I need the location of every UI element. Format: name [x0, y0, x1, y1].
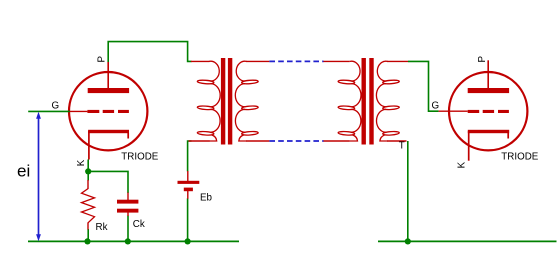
node K junction — [85, 168, 91, 174]
triode U2 cathode lead K — [468, 131, 470, 161]
svg-text:Eb: Eb — [200, 193, 213, 204]
transformer T2 core — [362, 58, 366, 145]
resistor Rk — [82, 189, 95, 223]
triode U1 plate lead — [107, 62, 109, 88]
triode U1 grid dashes — [87, 110, 128, 113]
svg-text:TRIODE: TRIODE — [501, 152, 538, 163]
wire junction to capacitor — [88, 171, 128, 193]
wire secondary to grid right — [408, 61, 439, 111]
triode U1 cathode lead K — [88, 131, 90, 160]
wire battery to rail — [187, 198, 189, 241]
triode U2 plate bar — [468, 88, 509, 93]
transformer T2 secondary winding — [376, 61, 399, 141]
svg-text:P: P — [97, 56, 108, 63]
wire ground rail left — [28, 240, 239, 242]
svg-text:G: G — [52, 100, 60, 111]
triode U2 grid lead — [439, 110, 468, 112]
wire resistor to rail — [87, 229, 89, 241]
triode U2 cathode — [468, 130, 509, 133]
transformer T2 primary winding — [338, 61, 361, 141]
transformer T1 secondary lead bottom — [246, 140, 269, 142]
transformer T1 primary lead top — [191, 60, 210, 62]
node rail T — [405, 238, 411, 244]
triode U1 grid lead — [70, 110, 88, 112]
wire T to rail — [407, 141, 409, 241]
svg-text:P: P — [477, 56, 488, 63]
svg-text:G: G — [432, 100, 440, 111]
wire capacitor to rail — [127, 216, 129, 242]
svg-text:T: T — [399, 141, 405, 152]
triode U2 (right) envelope — [449, 72, 527, 150]
svg-text:Rk: Rk — [96, 222, 108, 233]
svg-text:Ck: Ck — [133, 219, 145, 230]
transformer T2 secondary lead top — [387, 60, 408, 62]
link line top (dashed) — [269, 60, 323, 62]
capacitor Ck leads — [127, 193, 129, 201]
link line bottom (dashed) — [269, 140, 323, 142]
node rail Ck — [125, 238, 131, 244]
svg-text:ei: ei — [17, 162, 30, 181]
battery Eb plates — [178, 181, 200, 184]
node rail Eb — [185, 238, 191, 244]
wire cathode junction vertical — [87, 160, 89, 181]
triode U1 cathode — [88, 130, 129, 133]
svg-text:K: K — [76, 159, 87, 166]
triode U2 plate lead — [487, 60, 489, 88]
resistor Rk leads — [87, 180, 89, 189]
voltage arrow ei — [38, 115, 40, 238]
wire grid left — [28, 110, 70, 112]
node rail Rk — [84, 238, 90, 244]
transformer T1 secondary winding — [235, 61, 258, 141]
capacitor Ck — [117, 200, 138, 204]
triode U1 plate bar — [88, 88, 129, 93]
transformer T1 primary lead bottom — [189, 140, 210, 142]
transformer T1 primary winding — [197, 61, 220, 141]
triode U2 grid dashes — [468, 110, 509, 113]
wire ground rail right — [378, 240, 557, 242]
battery Eb leads — [187, 171, 189, 181]
svg-text:K: K — [457, 161, 468, 168]
transformer T1 secondary lead top — [246, 60, 269, 62]
wire plate to transformer — [108, 42, 191, 62]
transformer T1 core — [221, 58, 225, 145]
svg-text:TRIODE: TRIODE — [121, 152, 158, 163]
transformer T2 secondary lead bottom — [387, 140, 407, 142]
wire transformer bottom to battery — [188, 141, 192, 171]
triode U1 (left) envelope — [69, 72, 147, 150]
